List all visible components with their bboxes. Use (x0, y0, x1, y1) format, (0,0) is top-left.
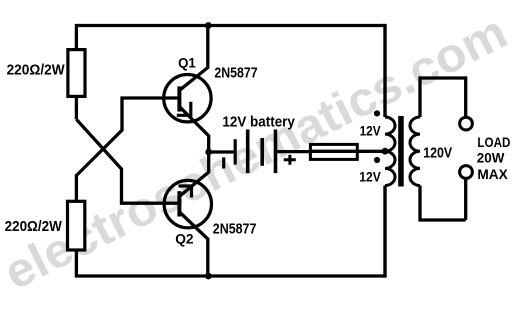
Q1 collector vertical wire to top rail (206, 26, 209, 69)
Q1 emitter diagonal (180, 107, 209, 136)
primary winding (center-tapped) (385, 117, 395, 185)
junction node bottom rail / Q2 collector (205, 273, 212, 280)
transformer core (398, 116, 404, 187)
svg-text:2N5877: 2N5877 (214, 65, 257, 82)
wire secondary top lead (420, 78, 466, 117)
battery plate 3 short (260, 138, 264, 166)
Q2 collector diagonal (down) (180, 212, 208, 239)
wire cross diagonal A (R1 to Q2 base) (76, 119, 177, 203)
phase dot bottom (374, 157, 380, 163)
svg-text:Q2: Q2 (175, 231, 194, 247)
phase dot top (374, 110, 380, 116)
Q1 base bar (177, 86, 181, 111)
Q1 emitter arrow (177, 102, 191, 116)
resistor R1 220R/2W (68, 50, 85, 97)
fuse F1 (310, 144, 385, 159)
battery plate 1 short (234, 139, 237, 164)
wire right vertical (top rail to primary top) (383, 24, 386, 117)
label plus terminal (284, 155, 296, 165)
battery plate 4 long (274, 130, 278, 174)
Q2 collector vertical wire to bottom rail (206, 238, 209, 276)
svg-text:220Ω/2W: 220Ω/2W (5, 219, 62, 235)
wire to upper load terminal (464, 76, 467, 116)
wire top rail (76, 24, 385, 27)
wire below R2 (75, 250, 78, 276)
transistor Q2 2N5877 (164, 152, 211, 276)
resistor R2 220R/2W (68, 201, 85, 250)
Q2 emitter wire to battery node (207, 152, 210, 173)
fuse body rectangle (310, 144, 357, 159)
wire cross diagonal B (Q1 base to R2) (76, 98, 177, 203)
wire from lower load terminal (464, 180, 467, 221)
wire secondary bottom lead (420, 186, 466, 221)
svg-text:12V: 12V (359, 168, 381, 184)
transformer T1 (374, 110, 420, 186)
svg-text:20W: 20W (477, 151, 505, 166)
Q2 circle (164, 180, 211, 227)
wire bottom rail (75, 274, 385, 277)
Q2 emitter diagonal (up) (180, 172, 209, 196)
battery B1 12V (209, 130, 310, 174)
Q1 collector diagonal (180, 68, 208, 91)
label minus terminal I (222, 157, 225, 168)
battery plate 2 long (246, 130, 250, 174)
wire left top vertical (top rail to R1) (75, 24, 78, 50)
wire right vertical (primary bottom to bottom rail) (383, 186, 386, 278)
svg-text:12V battery: 12V battery (222, 113, 295, 130)
svg-text:2N5877: 2N5877 (213, 220, 257, 237)
wire below R1 (75, 96, 78, 119)
load terminal lower (460, 166, 473, 179)
junction node emitters / battery minus (205, 149, 212, 156)
svg-text:MAX: MAX (477, 167, 507, 182)
wire battery minus lead (209, 150, 234, 153)
secondary circuit wires (420, 76, 472, 220)
svg-text:LOAD: LOAD (477, 135, 510, 150)
svg-text:12V: 12V (360, 122, 382, 138)
junction node center tap (382, 148, 389, 155)
svg-text:Q1: Q1 (178, 55, 196, 71)
wire through fuse (310, 150, 385, 153)
Q1 emitter wire to battery node (207, 135, 210, 152)
Q1 circle (164, 75, 211, 122)
secondary winding (410, 117, 420, 185)
svg-text:220Ω/2W: 220Ω/2W (7, 62, 65, 78)
load terminal upper (460, 117, 473, 130)
svg-text:120V: 120V (423, 144, 452, 161)
transistor Q1 2N5877 (164, 26, 211, 153)
Q2 base bar (177, 191, 181, 216)
junction node top rail / Q1 collector (205, 22, 212, 29)
Q2 emitter arrow (179, 186, 192, 198)
wire battery plus lead (277, 150, 310, 153)
